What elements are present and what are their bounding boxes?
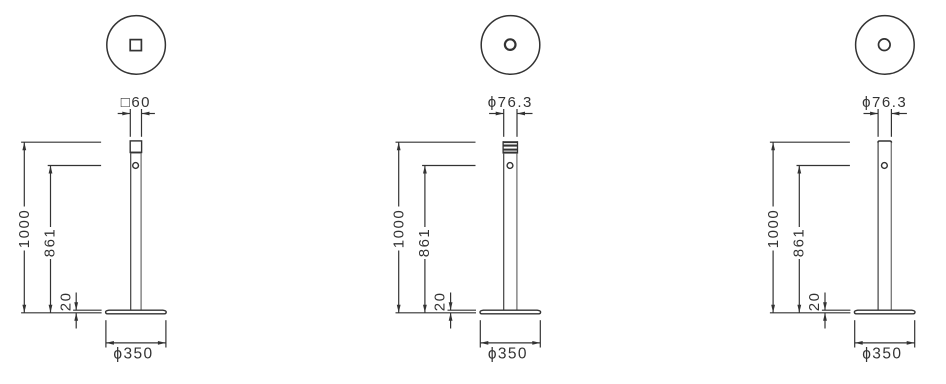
base diameter extension lines: [105, 320, 107, 347]
post hole: [882, 163, 888, 169]
svg-text:ϕ76.3: ϕ76.3: [862, 94, 907, 111]
base-top extension line: [73, 309, 102, 311]
svg-text:861: 861: [416, 228, 433, 258]
base diameter dim line: [106, 342, 166, 344]
width extension lines: [503, 109, 505, 137]
svg-text:20: 20: [57, 292, 74, 312]
ground extension line: [396, 312, 477, 314]
post hole: [507, 163, 513, 169]
width dim line with inward arrows: [489, 113, 504, 115]
width extension lines: [877, 109, 879, 137]
base diameter dim line: [480, 342, 540, 344]
svg-text:861: 861: [42, 228, 59, 258]
861 extension line (hole centre): [422, 165, 475, 167]
861 dimension line: [50, 166, 52, 228]
1000 dimension line: [772, 142, 774, 206]
base diameter extension lines: [854, 320, 856, 347]
base plate: [106, 310, 167, 314]
base diameter extension lines: [479, 320, 481, 347]
base-top extension line: [822, 309, 851, 311]
861 dimension line: [424, 166, 426, 228]
base plate: [854, 310, 915, 314]
1000 dimension line: [23, 142, 25, 206]
top view: thick pipe cross-section ring: [505, 39, 516, 50]
861 dimension line: [798, 166, 800, 228]
base plate: [480, 310, 541, 314]
svg-text:□60: □60: [121, 94, 151, 111]
square post cap: [130, 141, 141, 153]
svg-text:20: 20: [432, 292, 449, 312]
top view: tube cross-section circle: [879, 39, 891, 51]
plain tube post: [877, 142, 879, 310]
20 dimension (base thickness): [450, 293, 452, 311]
post body: [130, 153, 132, 310]
striped reflective cap: [503, 141, 517, 143]
1000 dimension line: [398, 142, 400, 206]
svg-text:20: 20: [806, 292, 823, 312]
20 dimension (base thickness): [824, 293, 826, 311]
1000 top extension line: [21, 141, 101, 143]
cap bottom band: [130, 152, 141, 154]
width dim line with inward arrows: [118, 113, 131, 115]
svg-text:ϕ76.3: ϕ76.3: [488, 94, 533, 111]
base diameter dim line: [855, 342, 915, 344]
square post: top view outer circle: [107, 16, 166, 75]
plain tube post: top view outer circle: [856, 16, 915, 75]
width dim line with inward arrows: [864, 113, 879, 115]
svg-text:ϕ350: ϕ350: [113, 345, 153, 362]
861 extension line (hole centre): [797, 165, 850, 167]
base-top extension line: [448, 309, 477, 311]
svg-text:861: 861: [791, 228, 808, 258]
post hole: [133, 163, 139, 169]
20 dimension (base thickness): [75, 293, 77, 311]
svg-text:1000: 1000: [16, 209, 33, 248]
1000 top extension line: [396, 141, 476, 143]
svg-text:ϕ350: ϕ350: [862, 345, 902, 362]
1000 top extension line: [770, 141, 850, 143]
861 extension line (hole centre): [48, 165, 101, 167]
striped pipe post: top view outer circle: [481, 16, 540, 75]
top view: square tube cross-section: [130, 40, 141, 51]
svg-text:1000: 1000: [765, 209, 782, 248]
post body: [503, 154, 505, 311]
width extension lines: [129, 109, 131, 137]
svg-text:1000: 1000: [391, 209, 408, 248]
svg-text:ϕ350: ϕ350: [488, 345, 528, 362]
ground extension line: [21, 312, 102, 314]
ground extension line: [770, 312, 851, 314]
